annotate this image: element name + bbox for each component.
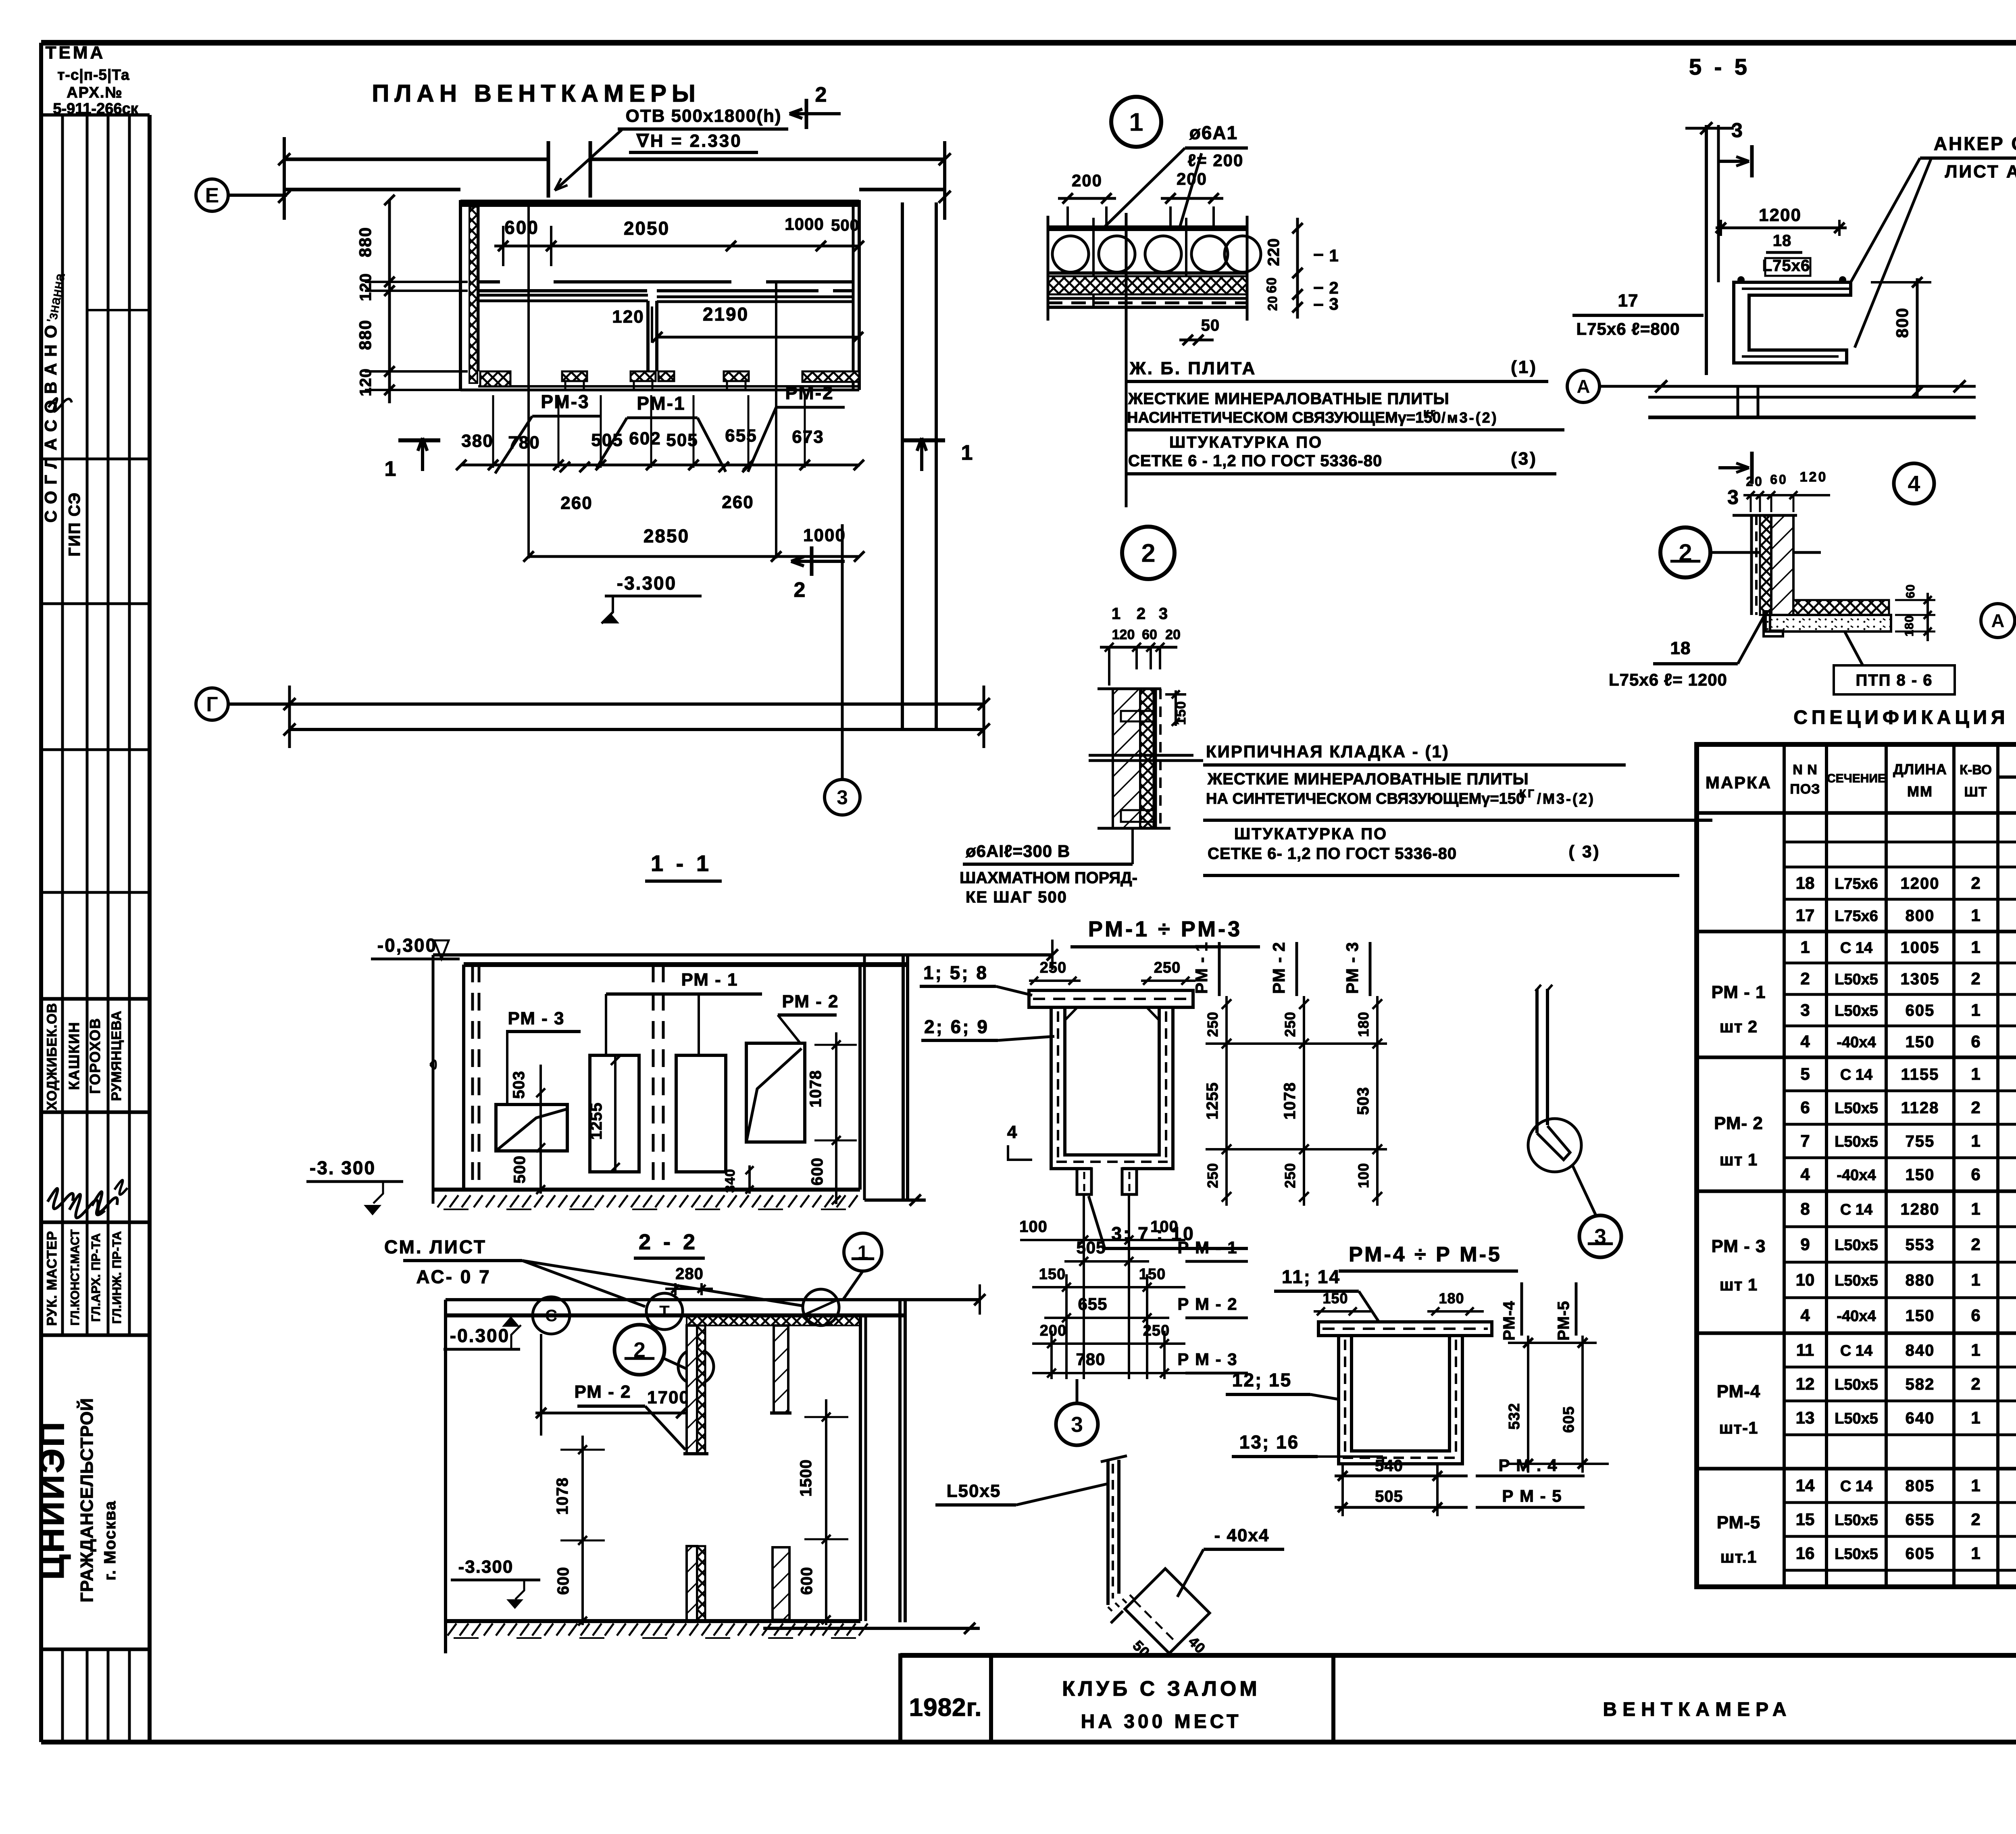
svg-text:РУМЯНЦЕВА: РУМЯНЦЕВА <box>109 1011 124 1101</box>
svg-text:ø6А1: ø6А1 <box>1189 122 1238 143</box>
detail3 vertical angle <box>1106 1460 1110 1605</box>
plan corner fin L <box>480 371 510 386</box>
svg-text:10: 10 <box>1796 1270 1815 1289</box>
svg-text:2: 2 <box>794 578 807 602</box>
corner wall insulation <box>1760 515 1771 615</box>
svg-text:60: 60 <box>1142 627 1157 642</box>
svg-text:880: 880 <box>356 319 375 350</box>
svg-text:РМ-1 ÷ РМ-3: РМ-1 ÷ РМ-3 <box>1088 917 1242 941</box>
RM45 right dims 532/605 <box>1527 1336 1529 1473</box>
svg-text:L50x5: L50x5 <box>1835 1002 1878 1019</box>
svg-text:-3. 300: -3. 300 <box>310 1157 376 1178</box>
svg-text:120: 120 <box>1800 469 1828 485</box>
svg-text:L75x6: L75x6 <box>1835 875 1878 892</box>
svg-text:1982г.: 1982г. <box>909 1694 982 1721</box>
svg-text:840: 840 <box>1906 1342 1935 1359</box>
svg-text:120: 120 <box>1112 627 1135 642</box>
corner wall plaster strip <box>1750 515 1753 615</box>
svg-text:1; 5; 8: 1; 5; 8 <box>923 962 988 983</box>
dims 1078/600 (1-1) <box>835 1032 837 1204</box>
svg-text:100: 100 <box>1150 1218 1179 1236</box>
svg-text:ПЛАН ВЕНТКАМЕРЫ: ПЛАН ВЕНТКАМЕРЫ <box>372 80 701 107</box>
svg-text:1: 1 <box>1971 1132 1980 1150</box>
RM-1 unit rect right <box>676 1055 726 1172</box>
svg-text:655: 655 <box>725 426 757 446</box>
svg-text:1078: 1078 <box>554 1478 571 1515</box>
svg-text:503: 503 <box>1354 1087 1372 1115</box>
right corridor wall vertical <box>901 202 904 729</box>
svg-text:340: 340 <box>723 1169 738 1193</box>
2-2 dims 1500/600 right chain <box>825 1399 827 1625</box>
RM channel frame <box>1051 1007 1173 1169</box>
svg-text:Р М - 5: Р М - 5 <box>1502 1486 1562 1505</box>
svg-text:1200: 1200 <box>1759 205 1801 225</box>
plan fin 2 <box>562 371 587 381</box>
svg-text:(3): (3) <box>1511 449 1537 469</box>
svg-text:3: 3 <box>1727 486 1740 509</box>
mid horizontal lines <box>1089 754 1193 757</box>
svg-text:655: 655 <box>1078 1294 1107 1313</box>
1-1 mid partition dashed <box>652 965 655 1190</box>
corner weld marks <box>1065 1007 1077 1020</box>
svg-text:4: 4 <box>1800 1306 1810 1325</box>
svg-text:1: 1 <box>1800 938 1810 957</box>
2-2 mid partition hatched upper <box>687 1325 697 1454</box>
spec table column rules <box>1783 744 1786 1587</box>
corner detail circle 2 <box>1660 527 1710 577</box>
horizontal ticks linking <box>1206 1042 1387 1045</box>
svg-text:Т: Т <box>659 1302 670 1321</box>
title block box 1982 <box>900 1655 991 1742</box>
svg-text:15: 15 <box>1796 1510 1815 1529</box>
svg-text:18: 18 <box>1670 638 1691 658</box>
svg-text:20: 20 <box>1165 627 1181 642</box>
1-1 left overall dim line <box>432 955 435 1204</box>
svg-text:РМ-5: РМ-5 <box>1717 1513 1761 1532</box>
svg-text:3: 3 <box>1071 1413 1083 1437</box>
slab top line <box>1048 225 1247 231</box>
svg-text:605: 605 <box>1560 1406 1577 1433</box>
svg-text:L50x5: L50x5 <box>1835 1100 1878 1117</box>
svg-text:кг: кг <box>1423 406 1437 419</box>
svg-text:- 40х4: - 40х4 <box>1214 1526 1270 1545</box>
inner wall upper (double with gaps) <box>478 280 500 283</box>
detail circle 4 mid <box>1894 463 1934 504</box>
svg-text:780: 780 <box>508 433 540 452</box>
svg-text:1005: 1005 <box>1901 939 1940 957</box>
dim 200 right <box>1169 206 1172 230</box>
svg-text:ДЛИНА: ДЛИНА <box>1893 761 1947 777</box>
svg-text:1: 1 <box>1971 1408 1980 1427</box>
svg-text:КИРПИЧНАЯ КЛАДКА - (1): КИРПИЧНАЯ КЛАДКА - (1) <box>1206 742 1450 761</box>
svg-text:540: 540 <box>1375 1457 1403 1475</box>
section mark 1 right <box>903 438 945 442</box>
stamp signatures scribbles <box>48 1188 73 1209</box>
dim 505 RM-5 <box>1335 1506 1468 1509</box>
circle 1 marker above <box>844 1233 882 1271</box>
svg-text:20: 20 <box>1746 474 1764 489</box>
bottom small plates <box>1077 1169 1091 1194</box>
svg-text:4: 4 <box>1908 471 1920 496</box>
bent plate sketch <box>1535 985 1552 991</box>
svg-text:1255: 1255 <box>587 1102 605 1140</box>
plan top band lower line segments <box>283 188 460 192</box>
RM45 top plate <box>1318 1322 1492 1336</box>
svg-text:L50x5: L50x5 <box>1835 1546 1878 1563</box>
svg-text:РМ-1: РМ-1 <box>637 393 685 414</box>
plan top wall band upper line <box>283 158 548 161</box>
svg-text:СЕТКЕ 6 - 1,2 ПО ГОСТ 5336-80: СЕТКЕ 6 - 1,2 ПО ГОСТ 5336-80 <box>1128 452 1382 470</box>
svg-text:13; 16: 13; 16 <box>1239 1432 1299 1453</box>
svg-text:4: 4 <box>1800 1165 1810 1184</box>
svg-text:-3.300: -3.300 <box>458 1557 514 1577</box>
svg-text:2850: 2850 <box>644 525 689 546</box>
RM-3 dims 503/500 <box>539 1065 542 1194</box>
svg-text:805: 805 <box>1906 1477 1935 1495</box>
svg-text:1: 1 <box>1971 1340 1980 1359</box>
svg-text:180: 180 <box>1355 1011 1372 1037</box>
svg-text:РМ- 2: РМ- 2 <box>1714 1113 1763 1133</box>
svg-text:РМ - 1: РМ - 1 <box>1192 942 1211 994</box>
5-5 mark 3 top <box>1750 145 1754 177</box>
svg-text:3: 3 <box>1329 294 1340 313</box>
svg-text:-0,300: -0,300 <box>377 935 437 956</box>
plan fin 4 <box>724 371 749 381</box>
plan right hatched strip <box>802 371 859 382</box>
svg-text:505: 505 <box>1375 1488 1403 1505</box>
svg-text:1: 1 <box>1971 938 1980 957</box>
svg-text:6: 6 <box>1800 1098 1810 1117</box>
section mark 1 left <box>398 438 440 442</box>
right dim verticals RM-1 RM-2 RM-3 <box>1225 996 1228 1206</box>
svg-text:L50x5: L50x5 <box>1835 1410 1878 1427</box>
svg-text:НА СИНТЕТИЧЕСКОМ СВЯЗУЮЩЕМγ=15: НА СИНТЕТИЧЕСКОМ СВЯЗУЮЩЕМγ=150 <box>1206 790 1524 807</box>
svg-text:1078: 1078 <box>1281 1082 1299 1120</box>
dim ladder below RM frame <box>1083 1194 1085 1379</box>
plan top band right end tick <box>943 141 946 220</box>
svg-text:250: 250 <box>1154 959 1181 976</box>
svg-text:250: 250 <box>1282 1011 1298 1037</box>
small circle on wall <box>678 1349 714 1384</box>
RM-1 unit rect left <box>590 1055 639 1172</box>
svg-text:1155: 1155 <box>1901 1066 1939 1084</box>
svg-text:605: 605 <box>1906 1545 1935 1563</box>
circle 3 below ladder <box>1056 1403 1098 1445</box>
section mark 2 bottom <box>810 546 814 576</box>
5-5 base lines <box>1648 385 1976 388</box>
svg-text:13: 13 <box>1796 1408 1815 1427</box>
svg-text:С О Г Л А С О В А Н О: С О Г Л А С О В А Н О <box>41 324 60 523</box>
svg-text:ø6АIℓ=300 В: ø6АIℓ=300 В <box>966 842 1070 861</box>
ties in wall <box>1121 711 1156 721</box>
node line to circle 3 <box>841 524 844 780</box>
svg-text:800: 800 <box>1906 907 1935 925</box>
svg-text:L50х5: L50х5 <box>947 1481 1001 1501</box>
5-5 anchor dots <box>1737 276 1745 283</box>
svg-text:ТЕМА: ТЕМА <box>46 43 106 63</box>
svg-text:2: 2 <box>1137 605 1147 623</box>
svg-text:НАСИНТЕТИЧЕСКОМ СВЯЗУЮЩЕМγ=150: НАСИНТЕТИЧЕСКОМ СВЯЗУЮЩЕМγ=150 <box>1127 409 1441 426</box>
partition foot fin <box>658 371 674 381</box>
svg-text:шт.1: шт.1 <box>1720 1547 1757 1566</box>
spec table row rules <box>1784 841 2016 844</box>
svg-text:Р М - 2: Р М - 2 <box>1177 1294 1237 1313</box>
svg-text:ШАХМАТНОМ ПОРЯД-: ШАХМАТНОМ ПОРЯД- <box>960 869 1137 887</box>
chamber left wall hatched <box>459 200 462 389</box>
svg-text:ГРАЖДАНСЕЛЬСТРОЙ: ГРАЖДАНСЕЛЬСТРОЙ <box>76 1398 97 1603</box>
svg-text:250: 250 <box>1040 959 1066 976</box>
svg-text:12: 12 <box>1796 1374 1815 1393</box>
svg-text:505: 505 <box>591 430 623 450</box>
spec table outer frame <box>1697 744 2016 1587</box>
svg-text:1: 1 <box>1129 107 1143 136</box>
svg-text:800: 800 <box>1893 307 1912 338</box>
corner angle piece <box>1764 611 1783 636</box>
svg-text:С 14: С 14 <box>1840 1201 1872 1218</box>
svg-text:2: 2 <box>1971 1098 1980 1117</box>
svg-text:РМ - 1: РМ - 1 <box>1712 982 1766 1002</box>
svg-text:А: А <box>1991 610 2004 631</box>
svg-text:1: 1 <box>1971 1270 1980 1289</box>
detail3 ticks <box>1111 1611 1123 1623</box>
svg-text:МАРКА: МАРКА <box>1706 773 1772 792</box>
svg-text:250: 250 <box>1204 1011 1221 1037</box>
partition T (120 thick) <box>646 301 650 371</box>
axis A circle 5-5 <box>1567 370 1599 402</box>
svg-text:1200: 1200 <box>1901 875 1940 892</box>
right dim chain 220/60/20 <box>1296 218 1299 319</box>
RM-3 unit rect <box>496 1105 567 1151</box>
svg-text:L75х6 ℓ= 1200: L75х6 ℓ= 1200 <box>1609 670 1727 689</box>
title block outline <box>900 1653 2016 1658</box>
svg-text:РМ-4: РМ-4 <box>1717 1382 1761 1401</box>
slab bottom line <box>1048 271 1247 275</box>
svg-text:5: 5 <box>1800 1065 1810 1084</box>
plan opening vertical edges <box>547 141 550 198</box>
plan top band left end ticks <box>283 137 286 220</box>
svg-text:2; 6; 9: 2; 6; 9 <box>924 1016 989 1037</box>
chamber top wall (thick) <box>460 200 859 207</box>
svg-text:60: 60 <box>1904 584 1917 598</box>
svg-text:16: 16 <box>1796 1544 1815 1563</box>
2-2 left boundary line <box>444 1300 447 1653</box>
svg-text:755: 755 <box>1906 1133 1935 1150</box>
svg-text:8: 8 <box>1800 1199 1810 1218</box>
svg-text:L50x5: L50x5 <box>1835 1134 1878 1150</box>
svg-text:180: 180 <box>1439 1290 1464 1307</box>
plan fin extension verticals <box>492 395 494 468</box>
svg-text:180: 180 <box>1903 615 1916 636</box>
anker leaders <box>1851 158 1920 282</box>
svg-text:N N: N N <box>1793 762 1818 777</box>
svg-text:50: 50 <box>1201 317 1220 334</box>
svg-text:Г: Г <box>206 693 218 716</box>
2-2 right corridor wall <box>859 1315 862 1621</box>
svg-text:СЕТКЕ 6- 1,2 ПО ГОСТ 5336-80: СЕТКЕ 6- 1,2 ПО ГОСТ 5336-80 <box>1208 845 1457 863</box>
svg-text:600: 600 <box>798 1567 816 1595</box>
svg-text:АНКЕР СМ.: АНКЕР СМ. <box>1934 133 2016 154</box>
svg-text:-3.300: -3.300 <box>617 573 677 594</box>
svg-text:655: 655 <box>1906 1511 1935 1529</box>
svg-text:РМ-5: РМ-5 <box>1555 1300 1572 1340</box>
svg-text:г. Москва: г. Москва <box>101 1501 119 1581</box>
2-2 right slab hatch band <box>687 1317 860 1325</box>
svg-text:20: 20 <box>1265 296 1280 311</box>
svg-text:Р М - 3: Р М - 3 <box>1177 1350 1237 1369</box>
svg-text:3: 3 <box>1731 119 1744 142</box>
svg-text:14: 14 <box>1796 1476 1815 1495</box>
svg-text:12; 15: 12; 15 <box>1232 1369 1292 1390</box>
svg-text:150: 150 <box>1906 1166 1935 1184</box>
svg-text:/М3-(2): /М3-(2) <box>1537 790 1595 807</box>
svg-text:ХОДЖИБЕК.ОВ: ХОДЖИБЕК.ОВ <box>44 1003 60 1111</box>
svg-text:С: С <box>545 1306 557 1325</box>
1-1 right lower edge <box>864 1198 926 1202</box>
svg-text:1500: 1500 <box>797 1459 815 1497</box>
svg-text:РМ - 3: РМ - 3 <box>1343 942 1362 994</box>
wall top/bottom edges <box>1098 688 1161 690</box>
svg-text:2: 2 <box>1971 969 1980 988</box>
svg-text:ЖЕСТКИЕ МИНЕРАЛОВАТНЫЕ ПЛИТЫ: ЖЕСТКИЕ МИНЕРАЛОВАТНЫЕ ПЛИТЫ <box>1207 770 1529 788</box>
slab voids <box>1052 236 1089 272</box>
svg-text:60: 60 <box>1770 472 1788 487</box>
svg-text:2: 2 <box>1800 969 1810 988</box>
dim 200 left <box>1066 206 1069 230</box>
svg-text:-40x4: -40x4 <box>1837 1308 1876 1325</box>
corner wall top edge <box>1733 514 1797 517</box>
svg-text:РМ - 1: РМ - 1 <box>681 970 738 990</box>
svg-text:6: 6 <box>1971 1306 1980 1325</box>
svg-text:1: 1 <box>1971 906 1980 925</box>
svg-text:шт 2: шт 2 <box>1720 1017 1758 1036</box>
detail3 weld marks <box>1108 1595 1134 1611</box>
svg-text:L75х6: L75х6 <box>1762 257 1810 275</box>
RM top plate <box>1029 990 1193 1007</box>
sheet top frame line <box>41 40 2016 46</box>
svg-text:L50x5: L50x5 <box>1835 1376 1878 1393</box>
svg-text:553: 553 <box>1906 1236 1935 1254</box>
svg-text:шт 1: шт 1 <box>1720 1150 1758 1169</box>
stamp strip partial divider <box>87 309 150 311</box>
svg-text:КЛУБ С ЗАЛОМ: КЛУБ С ЗАЛОМ <box>1062 1677 1260 1701</box>
svg-text:1700: 1700 <box>647 1388 690 1407</box>
svg-text:500: 500 <box>831 217 859 234</box>
svg-text:600: 600 <box>554 1567 572 1595</box>
svg-text:КГ: КГ <box>1519 787 1536 800</box>
svg-text:100: 100 <box>1355 1163 1372 1188</box>
svg-text:602: 602 <box>629 429 661 448</box>
svg-text:880: 880 <box>1906 1271 1935 1289</box>
svg-text:2: 2 <box>1971 1235 1980 1254</box>
dim 50 bottom <box>1179 339 1214 342</box>
svg-text:ЖЕСТКИЕ МИНЕРАЛОВАТНЫЕ ПЛИТ: ЖЕСТКИЕ МИНЕРАЛОВАТНЫЕ ПЛИТЫ <box>1128 390 1450 408</box>
svg-text:582: 582 <box>1906 1375 1935 1393</box>
svg-text:503: 503 <box>510 1071 528 1099</box>
svg-text:АРХ.№: АРХ.№ <box>67 84 123 101</box>
plaster dashed line <box>1154 689 1157 828</box>
svg-text:500: 500 <box>511 1155 529 1184</box>
corner floor slab insulation <box>1793 600 1889 615</box>
RM45 channel <box>1339 1336 1462 1464</box>
5-5 dim 1200 <box>1716 227 1847 229</box>
svg-text:150: 150 <box>1322 1290 1348 1307</box>
corner floor slab concrete <box>1766 615 1891 631</box>
leader from label to slab <box>1104 148 1185 228</box>
svg-text:ОТВ 500х1800(h): ОТВ 500х1800(h) <box>625 106 781 126</box>
1-1 left wall <box>462 965 465 1190</box>
svg-text:L50x5: L50x5 <box>1835 971 1878 988</box>
svg-text:т-с|п-5|Та: т-с|п-5|Та <box>57 67 129 83</box>
plan long extension verticals <box>527 202 530 559</box>
svg-text:505: 505 <box>666 430 698 450</box>
svg-text:ШТУКАТУРКА ПО: ШТУКАТУРКА ПО <box>1234 825 1387 843</box>
5-5 mark 3 bottom <box>1750 452 1754 484</box>
svg-text:250: 250 <box>1204 1163 1221 1188</box>
svg-text:Ж. Б. ПЛИТА: Ж. Б. ПЛИТА <box>1129 358 1256 378</box>
2-2 floor <box>446 1619 860 1623</box>
svg-text:250: 250 <box>1282 1163 1298 1188</box>
svg-text:3: 3 <box>837 786 848 809</box>
sheet bottom frame line <box>41 1740 2016 1744</box>
svg-text:1078: 1078 <box>807 1070 825 1108</box>
svg-text:2: 2 <box>1141 538 1156 567</box>
svg-text:7: 7 <box>1800 1132 1810 1150</box>
dim 505 RM-1 <box>1064 1260 1149 1263</box>
svg-text:РМ - 3: РМ - 3 <box>1712 1236 1766 1256</box>
5-5 dim 800 <box>1916 278 1919 397</box>
detail circles on slab <box>533 1297 570 1334</box>
stamp signature scribble 1 <box>48 398 72 412</box>
svg-text:60: 60 <box>1264 277 1279 293</box>
left dim vertical with C circle <box>540 1334 542 1413</box>
svg-text:L50x5: L50x5 <box>1835 1272 1878 1289</box>
svg-text:150: 150 <box>1906 1033 1935 1051</box>
svg-text:СЕЧЕНИЕ: СЕЧЕНИЕ <box>1827 772 1886 785</box>
svg-text:ВЕНТКАМЕРА: ВЕНТКАМЕРА <box>1603 1699 1792 1720</box>
svg-text:ММ: ММ <box>1907 783 1933 800</box>
svg-text:L50x5: L50x5 <box>1835 1512 1878 1529</box>
svg-text:ГОРОХОВ: ГОРОХОВ <box>87 1017 103 1094</box>
spec table header rules <box>1998 775 2016 779</box>
svg-text:880: 880 <box>356 227 375 257</box>
svg-text:3: 3 <box>1800 1000 1810 1019</box>
svg-text:780: 780 <box>1076 1350 1105 1369</box>
2-2 partition lower right <box>773 1547 789 1620</box>
svg-text:9: 9 <box>1800 1235 1810 1254</box>
inner wall lower (double) <box>478 294 648 297</box>
svg-text:1: 1 <box>961 441 975 465</box>
svg-text:Р М - 1: Р М - 1 <box>1177 1238 1237 1257</box>
svg-text:150: 150 <box>1039 1266 1066 1283</box>
2-2 partition lower left <box>687 1546 697 1621</box>
dim 780 RM-3 <box>1032 1372 1185 1374</box>
svg-text:1: 1 <box>1112 605 1122 623</box>
svg-text:КЕ ШАГ 500: КЕ ШАГ 500 <box>966 888 1067 906</box>
plaster line <box>1048 297 1247 300</box>
corner dims 60/180 rotated <box>1926 593 1929 641</box>
svg-text:605: 605 <box>1906 1002 1935 1019</box>
2-2 dims 1078/600 left chain <box>581 1436 584 1625</box>
svg-text:150: 150 <box>1139 1266 1166 1283</box>
svg-text:18: 18 <box>1796 873 1815 892</box>
svg-text:2: 2 <box>1971 1510 1980 1529</box>
1-1 right corridor wall inner <box>858 965 862 1190</box>
svg-text:2190: 2190 <box>703 304 749 325</box>
sheet left frame line <box>39 43 43 1742</box>
svg-text:2: 2 <box>1971 873 1980 892</box>
svg-text:ШТ: ШТ <box>1964 784 1987 800</box>
5-5 wall vertical line <box>1705 125 1708 375</box>
